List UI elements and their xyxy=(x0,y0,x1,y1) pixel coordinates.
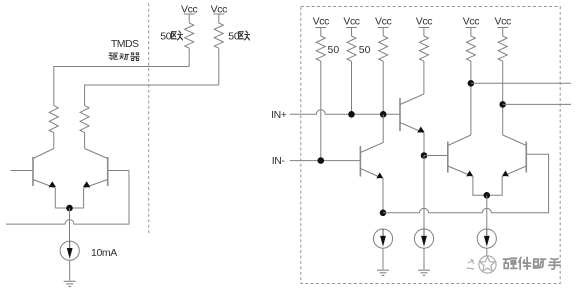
svg-text:TMDS: TMDS xyxy=(111,38,139,50)
svg-text:Vcc: Vcc xyxy=(343,16,359,28)
svg-text:50: 50 xyxy=(328,44,340,56)
svg-text:50: 50 xyxy=(160,30,172,42)
svg-text:50: 50 xyxy=(359,44,371,56)
svg-text:IN-: IN- xyxy=(272,155,286,167)
svg-text:Vcc: Vcc xyxy=(463,16,479,28)
svg-text:IN+: IN+ xyxy=(271,109,287,121)
svg-text:Vcc: Vcc xyxy=(495,16,511,28)
svg-text:Vcc: Vcc xyxy=(375,16,391,28)
svg-text:Vcc: Vcc xyxy=(313,16,329,28)
svg-text:10mA: 10mA xyxy=(91,247,117,259)
svg-text:Vcc: Vcc xyxy=(416,16,432,28)
